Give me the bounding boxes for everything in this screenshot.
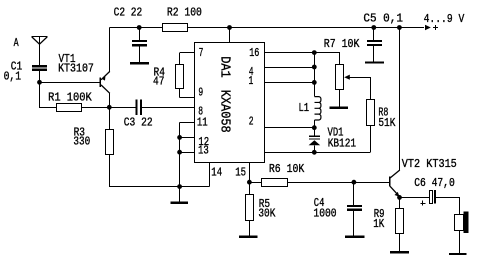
inductor L1 [315, 97, 321, 120]
svg-text:R2 100: R2 100 [167, 6, 202, 20]
svg-text:0,1: 0,1 [4, 70, 22, 84]
capacitor C4 [353, 182, 354, 205]
wire pins 16/4/1 to L1 [314, 53, 315, 97]
transistor VT1 [100, 77, 102, 87]
capacitor C6 [429, 190, 433, 204]
svg-text:KXA058: KXA058 [217, 90, 232, 133]
ground speaker [449, 253, 467, 255]
label + C6 [420, 203, 425, 204]
pin 11 [180, 122, 195, 123]
wire VT1 base [40, 82, 101, 83]
pin 4 [265, 67, 315, 68]
wire C4 to ground [353, 211, 354, 236]
wire R7 to ground [339, 90, 340, 107]
resistor R4 [175, 64, 184, 89]
wire C6 to speaker [436, 197, 460, 198]
ground R5 [239, 236, 258, 239]
resistor R3 [105, 129, 114, 155]
ground R9 [390, 251, 409, 253]
net VD1/R8 to IC [265, 152, 371, 153]
svg-text:R6 10K: R6 10K [269, 162, 305, 176]
wire VT1 collector down [109, 93, 110, 107]
svg-text:15: 15 [235, 166, 246, 180]
wire node to R3 [109, 107, 110, 129]
pin 13 [180, 152, 195, 153]
top supply rail [109, 27, 424, 28]
antenna A [31, 36, 47, 37]
node C4 [352, 180, 357, 185]
wire R8 down [370, 126, 371, 153]
transistor VT2 [389, 176, 391, 186]
ground R7 [330, 107, 348, 109]
svg-text:VT2 KT315: VT2 KT315 [402, 157, 457, 171]
ground C4 [345, 236, 365, 239]
resistor R9 [399, 197, 400, 208]
node rail VT2 [397, 25, 402, 30]
resistor R5 [249, 182, 250, 194]
wire C5 to ground [373, 46, 374, 62]
svg-text:C5 0,1: C5 0,1 [363, 11, 403, 25]
op-amp/IC DA1 KXA058 [194, 42, 265, 163]
ground C2 [130, 62, 149, 64]
supply arrow + [425, 25, 431, 30]
capacitor C1 [32, 65, 47, 67]
resistor R1 [56, 103, 82, 112]
svg-text:47: 47 [153, 74, 164, 88]
node ground line [177, 184, 182, 189]
resistor R8 [366, 99, 375, 126]
svg-text:DA1: DA1 [217, 56, 232, 77]
wire down to R1 [39, 82, 40, 108]
svg-text:330: 330 [73, 134, 90, 148]
svg-text:R1 100K: R1 100K [48, 90, 92, 104]
speaker BA1 [454, 214, 464, 231]
svg-text:A: A [14, 36, 20, 50]
svg-text:C6 47,0: C6 47,0 [414, 176, 455, 190]
resistor R6 [261, 178, 288, 187]
svg-text:16: 16 [249, 46, 259, 60]
svg-text:C2 22: C2 22 [114, 6, 143, 20]
wire to R7 [339, 53, 340, 65]
capacitor C2 [137, 25, 142, 30]
svg-text:R7 10K: R7 10K [324, 37, 360, 51]
ground [179, 187, 180, 202]
node VT1 collector/R1/R3/C3 [107, 105, 112, 110]
wire to R1 [40, 107, 57, 108]
svg-text:1000: 1000 [313, 206, 336, 220]
capacitor C3 [136, 99, 138, 115]
svg-text:51K: 51K [378, 116, 396, 130]
svg-text:11: 11 [197, 115, 208, 129]
node rail to IC [227, 25, 232, 30]
wire VT2 collector to rail [399, 28, 400, 171]
svg-text:9: 9 [198, 85, 203, 99]
node C1/R1/VT1 base [37, 80, 42, 85]
svg-text:14: 14 [211, 166, 222, 180]
pin 9 [179, 89, 180, 98]
capacitor C5 [371, 25, 376, 30]
wire R9 to ground [399, 234, 400, 252]
pin 16 [265, 52, 340, 53]
pin 15 [249, 162, 250, 182]
svg-text:4...9 V: 4...9 V [424, 12, 465, 26]
node VT2 emitter [397, 195, 402, 200]
wire R3 to ground line [109, 154, 110, 187]
ground line under IC [109, 186, 209, 187]
svg-text:13: 13 [198, 143, 209, 157]
wire rail to IC top [229, 28, 230, 43]
wire R1 to node [82, 107, 110, 108]
wire C3 to pin 8 [142, 107, 195, 108]
resistor R2 [162, 23, 188, 32]
potentiometer R7 [335, 64, 344, 90]
svg-text:L1: L1 [299, 101, 310, 115]
varicap VD1 [314, 128, 315, 136]
wire C2 to ground [139, 46, 140, 62]
pin 2 [265, 127, 315, 128]
wire to R6 [249, 182, 261, 183]
wire emitter to C6 [400, 197, 430, 198]
wire node to C3 [109, 107, 136, 108]
svg-text:1: 1 [249, 74, 254, 88]
svg-text:7: 7 [199, 46, 204, 60]
svg-text:C3 22: C3 22 [124, 115, 153, 129]
pin 1 [265, 82, 315, 83]
svg-text:KT3107: KT3107 [58, 61, 94, 75]
wire speaker to ground [459, 230, 460, 253]
wire R6 to VT2 base [287, 182, 389, 183]
svg-text:30K: 30K [258, 206, 276, 220]
wire R7 wiper to R8 [349, 77, 370, 78]
wire R5 to ground [249, 221, 250, 236]
svg-text:2: 2 [249, 115, 254, 129]
wire L1 to pin2 node [314, 120, 315, 128]
pin 12 [180, 137, 195, 138]
svg-text:1K: 1K [373, 217, 385, 231]
ground C5 [365, 61, 384, 63]
svg-text:KB121: KB121 [328, 137, 356, 151]
pin 14 [209, 162, 210, 186]
pin 7 [179, 52, 194, 53]
node pin15/R5/R6 [247, 180, 252, 185]
wire antenna to node [39, 71, 40, 83]
wire VT1 emitter to rail [109, 28, 110, 72]
